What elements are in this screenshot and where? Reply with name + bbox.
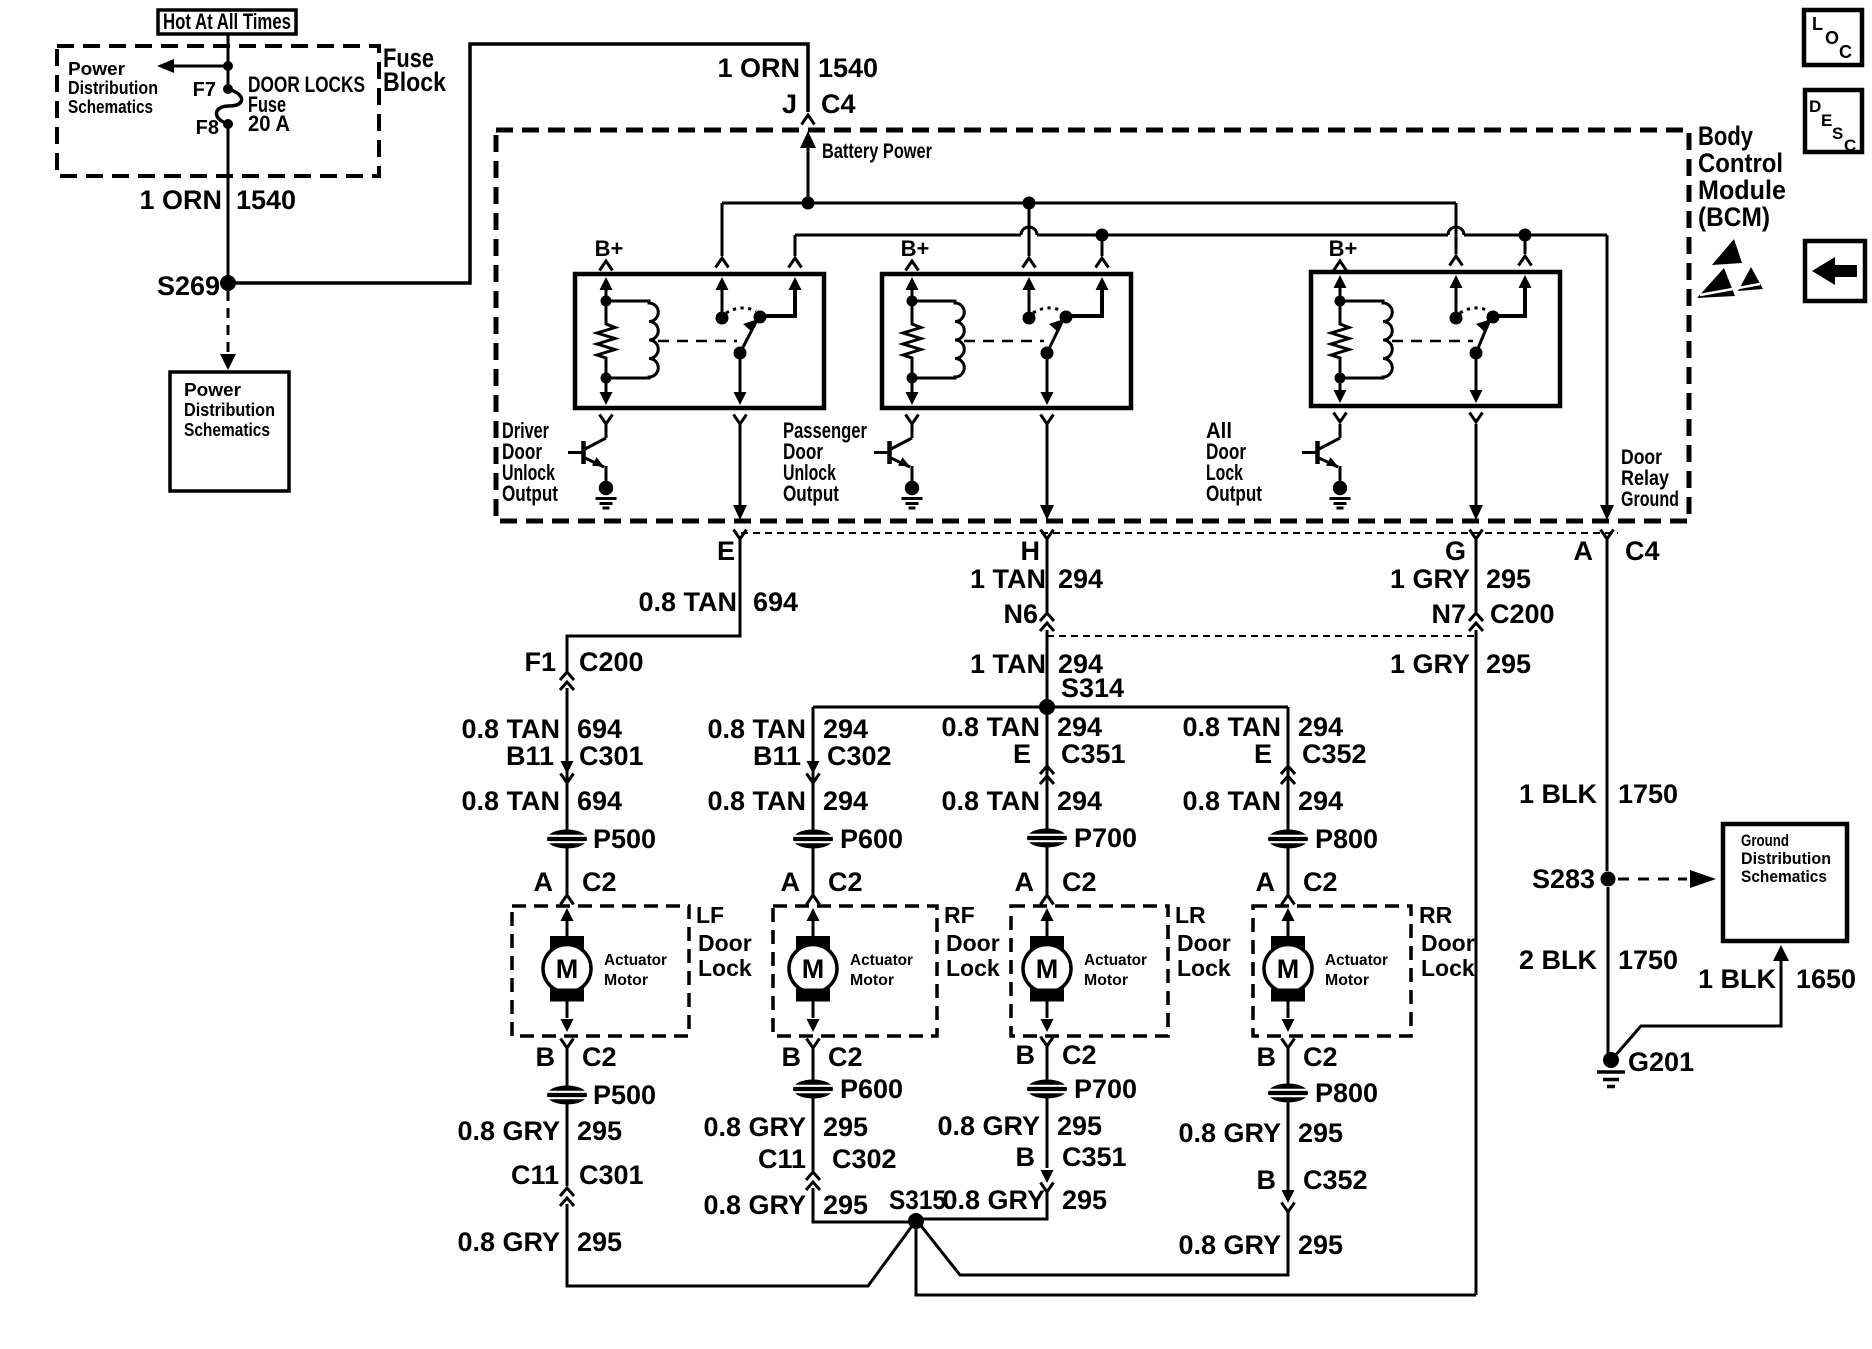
- label 0.8 GRY 295 (RF): [703, 1112, 868, 1142]
- svg-text:C302: C302: [827, 741, 892, 771]
- bus line 1 (battery to relay coils/contacts): [722, 197, 1456, 210]
- svg-text:294: 294: [823, 786, 868, 816]
- svg-text:C2: C2: [1303, 1042, 1338, 1072]
- svg-text:A: A: [534, 867, 554, 897]
- label 0.8 GRY 295 (LF lower): [457, 1227, 622, 1257]
- RR door lock actuator dashed box: [1253, 906, 1411, 1036]
- label 0.8 GRY 295 (LF): [457, 1116, 622, 1146]
- label 0.8 TAN 694: [461, 714, 622, 744]
- svg-text:1 TAN: 1 TAN: [970, 564, 1046, 594]
- LF actuator input arrow: [561, 908, 574, 936]
- label 0.8 GRY 295 (RR): [1178, 1118, 1343, 1148]
- bus line 2 (to relay NO contacts and door relay ground): [795, 227, 1607, 242]
- wire line1 to relay3 middle pin: [1450, 203, 1463, 266]
- svg-text:C: C: [1844, 136, 1856, 155]
- svg-text:Door: Door: [1421, 930, 1475, 956]
- LF actuator output arrow: [561, 1001, 574, 1032]
- svg-text:Motor: Motor: [1084, 972, 1128, 989]
- relay K1 switch fixed contact (from line1): [716, 277, 729, 325]
- svg-text:O: O: [1825, 28, 1839, 48]
- ground (transistor Q2 emitter): [905, 481, 919, 495]
- svg-text:295: 295: [823, 1190, 868, 1220]
- relay K1 coil inductor: [606, 301, 658, 378]
- svg-text:Actuator: Actuator: [1325, 952, 1388, 969]
- relay K3 coil inductor: [1340, 301, 1392, 378]
- pin B C2 from RF actuator: [782, 1039, 863, 1081]
- grommet P700 (top): [1027, 823, 1137, 853]
- svg-text:Door: Door: [946, 930, 1000, 956]
- svg-text:0.8 GRY: 0.8 GRY: [1178, 1118, 1281, 1148]
- svg-text:C200: C200: [1490, 599, 1555, 629]
- svg-text:Lock: Lock: [946, 955, 1000, 981]
- svg-text:0.8 TAN: 0.8 TAN: [461, 786, 560, 816]
- wire S269 to fuse-block output / J C4: [228, 44, 808, 283]
- svg-text:M: M: [1036, 954, 1059, 984]
- label Body Control Module (BCM): [1698, 121, 1786, 232]
- grommet P800 (top): [1268, 824, 1378, 854]
- svg-text:Motor: Motor: [850, 972, 894, 989]
- svg-text:M: M: [1277, 954, 1300, 984]
- relay K1 common pole pin (bottom): [734, 353, 747, 424]
- svg-text:L: L: [1812, 14, 1823, 34]
- wire relay3 common to BCM pin G: [1475, 424, 1478, 505]
- wire P500 to C301: [566, 1104, 569, 1186]
- actuator motor M (LR): [1023, 936, 1071, 1002]
- svg-text:F1: F1: [524, 647, 556, 677]
- relay K2 coil resistor: [903, 301, 921, 378]
- svg-text:C2: C2: [1303, 867, 1338, 897]
- relay K3 coil-to-arm dashed link: [1392, 340, 1473, 343]
- wire line1 to relay2 middle pin: [1023, 203, 1036, 268]
- connector F1 C200 inline: [524, 647, 643, 690]
- LOC reference box: [1804, 10, 1862, 65]
- svg-text:C11: C11: [511, 1160, 559, 1190]
- wire pin E down and left to F1/C200: [567, 539, 740, 672]
- svg-text:Door: Door: [698, 930, 752, 956]
- svg-text:Ground: Ground: [1621, 488, 1679, 511]
- svg-text:P700: P700: [1074, 1074, 1137, 1104]
- wire line2 to relay2 right pin: [1096, 235, 1109, 268]
- ground (transistor Q1 emitter): [599, 481, 613, 495]
- LR door lock actuator dashed box: [1011, 906, 1168, 1036]
- svg-text:295: 295: [823, 1112, 868, 1142]
- svg-text:Distribution: Distribution: [1741, 849, 1831, 868]
- svg-text:Ground: Ground: [1741, 831, 1789, 850]
- svg-text:P600: P600: [840, 1074, 903, 1104]
- svg-text:B: B: [1257, 1042, 1277, 1072]
- svg-text:C4: C4: [821, 89, 856, 119]
- svg-text:S283: S283: [1532, 864, 1595, 894]
- svg-text:295: 295: [577, 1227, 622, 1257]
- svg-text:694: 694: [753, 587, 798, 617]
- svg-text:C2: C2: [582, 867, 617, 897]
- svg-text:1750: 1750: [1618, 779, 1678, 809]
- svg-text:294: 294: [1058, 564, 1103, 594]
- relay K3 switch dotted throw arc: [1460, 308, 1489, 313]
- label Driver Door Unlock Output: [502, 418, 559, 506]
- pin A C2 to LR actuator: [1015, 847, 1097, 905]
- label LF Door Lock: [696, 902, 752, 981]
- svg-text:Body: Body: [1698, 121, 1753, 151]
- fuse block dashed box: [57, 46, 379, 176]
- connector E C352 inline: [1254, 739, 1367, 784]
- svg-text:C301: C301: [579, 1160, 644, 1190]
- relay K2 coil-to-arm dashed link: [964, 340, 1044, 343]
- RR actuator output arrow: [1282, 1001, 1295, 1032]
- svg-text:E: E: [717, 536, 735, 566]
- wire S314 to LR branch (straight down): [1046, 707, 1049, 830]
- svg-text:A: A: [1574, 536, 1594, 566]
- svg-text:0.8 TAN: 0.8 TAN: [941, 712, 1040, 742]
- relay K1 switch NO contact to right pin: [754, 277, 802, 324]
- relay K3 switch NO contact to right pin: [1487, 275, 1532, 324]
- svg-text:N7: N7: [1431, 599, 1466, 629]
- svg-text:Lock: Lock: [1421, 955, 1475, 981]
- svg-text:M: M: [556, 954, 579, 984]
- svg-text:294: 294: [1057, 786, 1102, 816]
- svg-text:C2: C2: [1062, 867, 1097, 897]
- svg-text:295: 295: [577, 1116, 622, 1146]
- svg-text:E: E: [1254, 739, 1272, 769]
- label Hot At All Times: [158, 9, 296, 34]
- svg-text:Actuator: Actuator: [1084, 952, 1147, 969]
- svg-text:0.8 GRY: 0.8 GRY: [703, 1190, 806, 1220]
- svg-text:294: 294: [823, 714, 868, 744]
- svg-text:C2: C2: [828, 867, 863, 897]
- svg-text:0.8 TAN: 0.8 TAN: [1182, 712, 1281, 742]
- relay K3 coil pin (top): [1334, 275, 1347, 307]
- svg-text:0.8 GRY: 0.8 GRY: [457, 1227, 560, 1257]
- svg-text:Door: Door: [1621, 446, 1662, 469]
- door lock relay K2 outline: [882, 274, 1131, 408]
- splice S283: [1532, 864, 1616, 894]
- svg-text:C352: C352: [1302, 739, 1367, 769]
- svg-text:0.8 GRY: 0.8 GRY: [1178, 1230, 1281, 1260]
- svg-text:Schematics: Schematics: [68, 97, 153, 117]
- svg-text:Door: Door: [1177, 930, 1231, 956]
- grommet P600 (bottom): [793, 1074, 903, 1104]
- label 0.8 TAN 294 (below C351): [941, 786, 1102, 816]
- wire relay2 common to BCM pin H: [1046, 424, 1049, 505]
- dashed wire S269 to power distribution: [220, 291, 236, 370]
- svg-text:295: 295: [1298, 1230, 1343, 1260]
- svg-text:F8: F8: [196, 117, 219, 139]
- actuator motor M (LF): [543, 936, 591, 1002]
- svg-text:E: E: [1013, 739, 1031, 769]
- splice S269: [157, 271, 236, 301]
- wire P600 to C302: [812, 1098, 815, 1171]
- DESC reference box: [1805, 90, 1862, 155]
- svg-text:0.8 TAN: 0.8 TAN: [1182, 786, 1281, 816]
- svg-text:B+: B+: [1329, 236, 1358, 261]
- svg-text:Block: Block: [383, 67, 447, 97]
- relay K2 switch movable arm: [1041, 319, 1065, 360]
- svg-text:1 GRY: 1 GRY: [1390, 564, 1470, 594]
- svg-text:Hot At All Times: Hot At All Times: [163, 9, 291, 34]
- svg-text:1540: 1540: [818, 53, 878, 83]
- wire S283 to G201 (2 BLK 1750): [1607, 887, 1610, 1054]
- svg-text:Schematics: Schematics: [184, 420, 270, 440]
- label 1 ORN 1540 (top): [717, 53, 878, 83]
- svg-text:(BCM): (BCM): [1698, 202, 1770, 232]
- label Door Relay Ground: [1621, 446, 1679, 511]
- relay K2 common pole pin (bottom): [1041, 353, 1054, 424]
- grommet P500 (bottom): [547, 1080, 656, 1110]
- wire S315 to 1 GRY 295 bus (to G): [916, 1221, 1476, 1295]
- wire P700 to C351: [1046, 1098, 1049, 1168]
- svg-text:C: C: [1839, 42, 1852, 62]
- wire hot feed into fuse block: [227, 34, 230, 88]
- connector C11 C301 inline: [511, 1160, 644, 1206]
- label 1 ORN 1540: [139, 185, 296, 215]
- svg-text:1 BLK: 1 BLK: [1698, 964, 1777, 994]
- label Fuse Block: [383, 43, 447, 97]
- box Power Distribution Schematics: [170, 372, 289, 491]
- pin E of C4: [717, 530, 747, 567]
- svg-text:Output: Output: [783, 481, 840, 506]
- wire F1 to LF door lock: [566, 688, 569, 830]
- BCM dashed outline: [496, 130, 1689, 521]
- svg-text:C351: C351: [1062, 1142, 1127, 1172]
- svg-text:1 ORN: 1 ORN: [717, 53, 800, 83]
- wire S314 to RF branch: [812, 707, 815, 830]
- svg-text:RF: RF: [944, 902, 975, 928]
- svg-text:Motor: Motor: [1325, 972, 1369, 989]
- dashed reference S283 to ground distribution: [1618, 870, 1716, 888]
- transistor Q3 (All output driver): [1302, 424, 1340, 481]
- splice S314 distribution line: [813, 699, 1288, 715]
- connector B11 C302 inline: [753, 741, 892, 783]
- relay K1 switch movable arm: [734, 319, 759, 360]
- connector E C351 inline: [1013, 739, 1126, 784]
- pin B C2 from LR actuator: [1016, 1037, 1097, 1081]
- svg-text:Motor: Motor: [604, 972, 648, 989]
- svg-text:LR: LR: [1175, 902, 1206, 928]
- svg-text:C2: C2: [582, 1042, 617, 1072]
- svg-text:0.8 GRY: 0.8 GRY: [937, 1111, 1040, 1141]
- svg-text:A: A: [781, 867, 801, 897]
- relay K2 B+ pin label: [901, 236, 930, 271]
- svg-text:N6: N6: [1003, 599, 1038, 629]
- svg-text:Actuator: Actuator: [850, 952, 913, 969]
- wire RR to S315: [918, 1212, 1288, 1275]
- wire RF to S315: [813, 1188, 916, 1222]
- svg-text:Output: Output: [1206, 481, 1263, 506]
- relay K1 coil pin (bottom): [600, 373, 613, 425]
- door lock relay K3 outline: [1311, 272, 1560, 406]
- relay K1 B+ pin label: [595, 236, 624, 271]
- grommet P500 (top): [547, 824, 656, 854]
- label 0.8 TAN 694 (below C301): [461, 786, 622, 816]
- svg-text:H: H: [1021, 536, 1041, 566]
- pin B C2 from LF actuator: [536, 1039, 617, 1087]
- wire N6 to S314: [1046, 630, 1049, 707]
- connector N6 C200 inline: [1003, 599, 1054, 631]
- relay K3 switch fixed contact (from line1): [1450, 275, 1463, 325]
- svg-text:B: B: [536, 1042, 556, 1072]
- wire pin G down to C200 N7: [1475, 539, 1478, 612]
- label RF Door Lock: [944, 902, 1000, 981]
- back arrow box: [1805, 241, 1865, 301]
- svg-text:C2: C2: [828, 1042, 863, 1072]
- grommet P600 (top): [793, 824, 903, 854]
- svg-text:M: M: [802, 954, 825, 984]
- grommet P800 (bottom): [1268, 1078, 1378, 1108]
- svg-text:S315: S315: [889, 1185, 946, 1215]
- connector B C352 inline: [1257, 1165, 1368, 1212]
- svg-text:0.8 TAN: 0.8 TAN: [707, 714, 806, 744]
- label 1 TAN 294 S314: [970, 649, 1124, 703]
- svg-text:B: B: [1016, 1040, 1036, 1070]
- svg-text:Power: Power: [68, 59, 125, 79]
- connector B11 C301 inline: [506, 741, 644, 783]
- wire line1 to relay1 middle pin: [716, 203, 729, 268]
- label 0.8 TAN 294 (RF): [707, 714, 868, 744]
- svg-text:0.8 TAN: 0.8 TAN: [638, 587, 737, 617]
- wire LR to S315: [918, 1192, 1047, 1219]
- pin H of C4: [1021, 530, 1054, 567]
- svg-text:0.8 GRY: 0.8 GRY: [942, 1185, 1045, 1215]
- svg-text:Control: Control: [1698, 148, 1783, 178]
- svg-text:1540: 1540: [236, 185, 296, 215]
- connector B C351 inline: [1016, 1142, 1127, 1192]
- label 1 GRY 295 (G segment): [1390, 564, 1531, 594]
- pin G of C4: [1445, 530, 1483, 567]
- label 0.8 TAN 294 (LR): [941, 712, 1102, 742]
- relay K2 switch NO contact to right pin: [1060, 277, 1109, 324]
- label 0.8 TAN 694 (E segment): [638, 587, 798, 617]
- wire line2 to relay1 right pin: [789, 235, 802, 268]
- svg-text:J: J: [782, 89, 797, 119]
- svg-text:P700: P700: [1074, 823, 1137, 853]
- svg-text:295: 295: [1298, 1118, 1343, 1148]
- relay K2 switch fixed contact (from line1): [1023, 277, 1036, 325]
- grommet P700 (bottom): [1027, 1074, 1137, 1104]
- connector C11 C302 inline: [758, 1144, 897, 1190]
- svg-text:295: 295: [1486, 564, 1531, 594]
- svg-text:C200: C200: [579, 647, 644, 677]
- svg-text:1 GRY: 1 GRY: [1390, 649, 1470, 679]
- relay K3 switch movable arm: [1470, 319, 1492, 360]
- svg-text:Actuator: Actuator: [604, 952, 667, 969]
- label LR Door Lock: [1175, 902, 1231, 981]
- label 0.8 TAN 294 (RR): [1182, 712, 1343, 742]
- svg-text:1 ORN: 1 ORN: [139, 185, 222, 215]
- svg-text:A: A: [1256, 867, 1276, 897]
- pin A C2 to RR actuator: [1256, 848, 1338, 905]
- svg-text:694: 694: [577, 786, 622, 816]
- label RR Door Lock: [1419, 902, 1475, 981]
- svg-text:295: 295: [1062, 1185, 1107, 1215]
- wire door relay ground to BCM pin A: [1600, 505, 1614, 520]
- relay K3 common pole pin (bottom): [1470, 353, 1483, 422]
- relay K1 coil resistor: [597, 301, 615, 378]
- relay K1 coil pin (top): [600, 277, 613, 307]
- label 0.8 GRY 295 (LR): [937, 1111, 1102, 1141]
- svg-text:294: 294: [1298, 712, 1343, 742]
- svg-text:B11: B11: [506, 741, 554, 771]
- svg-text:1 TAN: 1 TAN: [970, 649, 1046, 679]
- connector C200 dashed line (N6-N7): [1047, 635, 1476, 637]
- svg-text:Relay: Relay: [1621, 467, 1669, 490]
- wire N7 down to bottom bus (1 GRY 295): [1390, 630, 1531, 1295]
- svg-text:0.8 TAN: 0.8 TAN: [461, 714, 560, 744]
- svg-text:A: A: [1015, 867, 1035, 897]
- svg-text:G201: G201: [1628, 1047, 1694, 1077]
- svg-text:Distribution: Distribution: [68, 78, 158, 98]
- door lock relay K1 outline: [575, 274, 824, 408]
- label 1 BLK 1750: [1519, 779, 1678, 809]
- label Actuator Motor (LR): [1084, 952, 1147, 989]
- svg-text:2 BLK: 2 BLK: [1519, 945, 1598, 975]
- svg-text:P500: P500: [593, 824, 656, 854]
- svg-text:B11: B11: [753, 741, 801, 771]
- svg-text:B+: B+: [901, 236, 930, 261]
- wire to power distribution (left arrow): [157, 59, 233, 73]
- svg-text:Output: Output: [502, 481, 559, 506]
- svg-text:294: 294: [1298, 786, 1343, 816]
- RF actuator output arrow: [807, 1001, 820, 1032]
- label 2 BLK 1750: [1519, 945, 1678, 975]
- svg-text:Module: Module: [1698, 175, 1786, 205]
- svg-text:Lock: Lock: [698, 955, 752, 981]
- svg-text:C11: C11: [758, 1144, 806, 1174]
- svg-text:Battery Power: Battery Power: [822, 140, 932, 163]
- label 0.8 GRY 295 (RR lower): [1178, 1230, 1343, 1260]
- ground (transistor Q3 emitter): [1333, 481, 1347, 495]
- relay K3 B+ pin label: [1329, 236, 1358, 271]
- relay K1 switch dotted throw arc: [726, 308, 756, 313]
- pin A C2 to LF actuator: [534, 848, 617, 905]
- svg-text:C2: C2: [1062, 1040, 1097, 1070]
- relay K2 coil pin (bottom): [906, 373, 919, 425]
- svg-text:S269: S269: [157, 271, 220, 301]
- label Passenger Door Unlock Output: [783, 418, 867, 506]
- label 1 TAN 294 (H segment): [970, 564, 1103, 594]
- wire pin H down to C200 N6: [1046, 539, 1049, 612]
- svg-text:E: E: [1821, 111, 1832, 130]
- svg-text:Schematics: Schematics: [1741, 867, 1827, 886]
- svg-text:C301: C301: [579, 741, 644, 771]
- pin B C2 from RR actuator: [1257, 1039, 1338, 1085]
- svg-text:Lock: Lock: [1177, 955, 1231, 981]
- svg-text:1 BLK: 1 BLK: [1519, 779, 1598, 809]
- relay K1 coil-to-arm dashed link: [658, 340, 737, 343]
- svg-text:0.8 GRY: 0.8 GRY: [703, 1112, 806, 1142]
- LR actuator output arrow: [1041, 1001, 1054, 1032]
- label Actuator Motor (RR): [1325, 952, 1388, 989]
- box Ground Distribution Schematics: [1723, 824, 1847, 941]
- svg-text:0.8 TAN: 0.8 TAN: [941, 786, 1040, 816]
- RF door lock actuator dashed box: [773, 906, 937, 1036]
- wire ground distribution to G201 (1 BLK 1650): [1614, 945, 1856, 1057]
- svg-text:B: B: [1257, 1165, 1277, 1195]
- wire relay1 common to BCM pin E: [739, 424, 742, 505]
- svg-text:S314: S314: [1061, 673, 1124, 703]
- wire fuse to S269: [227, 124, 230, 283]
- fuse F7-F8 DOOR LOCKS 20A: [193, 79, 242, 139]
- wire pin A down to S283: [1606, 539, 1609, 871]
- RR actuator input arrow: [1282, 908, 1295, 936]
- svg-text:B: B: [782, 1042, 802, 1072]
- label Actuator Motor (RF): [850, 952, 913, 989]
- label 0.8 GRY 295 (LR lower): [942, 1185, 1107, 1215]
- label DOOR LOCKS Fuse 20 A: [248, 72, 365, 136]
- ground G201: [1597, 1047, 1694, 1087]
- label All Door Lock Output: [1206, 418, 1263, 506]
- wire line2 to relay3 right pin: [1519, 235, 1532, 266]
- svg-text:S: S: [1832, 124, 1843, 143]
